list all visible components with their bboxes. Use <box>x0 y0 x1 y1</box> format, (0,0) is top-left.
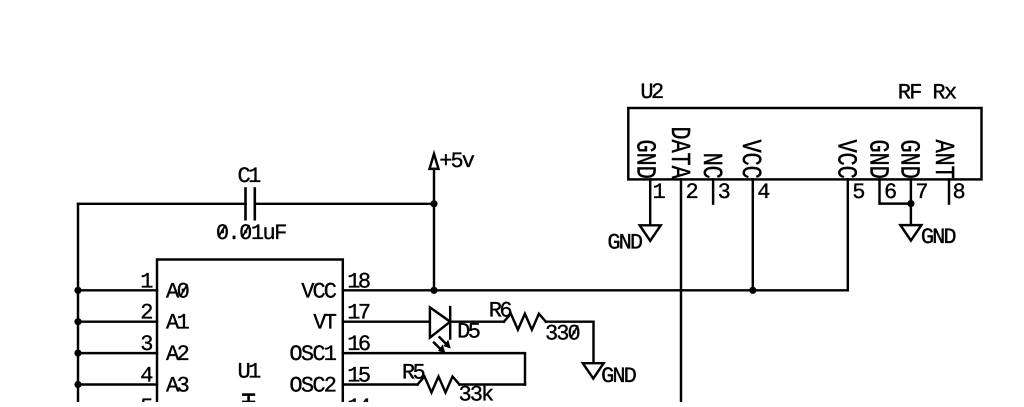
wire R5 to pin16 corner <box>460 383 526 385</box>
svg-text:5: 5 <box>852 180 865 205</box>
svg-text:18: 18 <box>347 269 371 294</box>
node junction +5v/VCC wire <box>430 287 437 294</box>
svg-text:R5: R5 <box>402 360 426 385</box>
svg-text:GND: GND <box>921 225 957 250</box>
wire C1 left segment <box>78 203 246 205</box>
slashed zero marks <box>219 225 226 237</box>
wire U1 pin2 <box>78 320 157 322</box>
svg-text:4: 4 <box>140 364 153 389</box>
node junction U2 pin6-pin7 <box>907 200 914 207</box>
svg-text:2: 2 <box>686 180 699 205</box>
svg-text:3: 3 <box>140 332 153 357</box>
label I below U1 <box>242 395 255 402</box>
node junction rail-pin3 <box>74 350 81 357</box>
wire +5v vertical <box>433 169 435 290</box>
resistor R5 <box>418 377 460 393</box>
svg-text:OSC2: OSC2 <box>289 374 337 399</box>
node junction rail-pin2 <box>74 318 81 325</box>
svg-text:RF Rx: RF Rx <box>898 81 958 106</box>
svg-text:0.01uF: 0.01uF <box>216 221 287 246</box>
svg-text:A2: A2 <box>166 342 190 367</box>
wire U2 pin6 <box>880 179 911 203</box>
IC U1 box <box>157 260 343 403</box>
svg-text:15: 15 <box>347 364 371 389</box>
svg-text:DATA: DATA <box>663 126 694 179</box>
svg-text:OSC1: OSC1 <box>289 342 337 367</box>
svg-text:+5v: +5v <box>439 149 475 174</box>
wire U1 pin17 VT <box>343 320 430 322</box>
svg-text:1: 1 <box>653 180 666 205</box>
svg-text:D5: D5 <box>457 320 481 345</box>
svg-text:330: 330 <box>545 322 581 347</box>
svg-text:3: 3 <box>718 180 731 205</box>
svg-text:NC: NC <box>695 153 726 179</box>
wire U1 pin16 OSC1 <box>343 353 525 384</box>
svg-text:4: 4 <box>757 180 770 205</box>
svg-text:1: 1 <box>140 269 153 294</box>
wire U2 pin3 NC stub <box>712 179 714 203</box>
svg-text:2: 2 <box>140 301 153 326</box>
node junction U2 pin4/VCC wire <box>749 287 756 294</box>
wire U2 pin7 <box>910 179 912 225</box>
svg-text:A3: A3 <box>166 374 190 399</box>
ground GND (R6) <box>583 363 604 378</box>
diode D5 LED <box>430 307 450 337</box>
svg-text:VCC: VCC <box>830 140 861 179</box>
svg-text:33k: 33k <box>459 383 495 403</box>
svg-text:C1: C1 <box>238 164 262 189</box>
svg-text:VCC: VCC <box>301 279 337 304</box>
svg-text:ANT: ANT <box>927 140 958 179</box>
wire U1 pin4 <box>78 383 157 385</box>
svg-text:U2: U2 <box>640 80 664 105</box>
svg-text:5: 5 <box>140 395 153 402</box>
wire U2 pin4 VCC <box>752 179 754 290</box>
svg-text:GND: GND <box>893 140 924 179</box>
svg-text:GND: GND <box>862 140 893 179</box>
svg-text:6: 6 <box>884 180 897 205</box>
svg-text:8: 8 <box>953 180 966 205</box>
ground GND (U2 pin1) <box>640 225 661 241</box>
ground GND (U2 pin7) <box>900 225 921 241</box>
wire U1 pin3 <box>78 352 157 354</box>
capacitor C1 <box>244 189 247 220</box>
svg-text:7: 7 <box>915 180 928 205</box>
node junction +5v/C1 wire <box>430 200 437 207</box>
svg-text:VT: VT <box>313 311 337 336</box>
wire U2 pin2 DATA <box>680 179 682 402</box>
wire C1 right segment to +5v line <box>255 203 434 205</box>
svg-text:GND: GND <box>607 231 643 256</box>
svg-text:VCC: VCC <box>734 140 765 179</box>
node junction rail-pin1 <box>74 287 81 294</box>
wire left rail <box>77 204 79 402</box>
svg-text:R6: R6 <box>489 299 513 324</box>
wire D5 to R6 <box>450 320 504 322</box>
svg-text:A1: A1 <box>166 311 190 336</box>
diode D5 arrowheads <box>443 340 450 349</box>
svg-text:GND: GND <box>601 364 637 389</box>
wire U2 pin1 stub <box>649 179 651 225</box>
svg-text:U1: U1 <box>238 360 262 385</box>
svg-text:17: 17 <box>347 301 371 326</box>
svg-text:GND: GND <box>629 140 660 179</box>
wire U2 pin5 VCC <box>847 179 849 290</box>
power +5v symbol <box>430 154 439 169</box>
svg-text:14: 14 <box>347 395 371 402</box>
svg-text:16: 16 <box>347 332 371 357</box>
IC U2 box <box>628 108 981 179</box>
wire U1 pin1 <box>78 289 157 291</box>
node junction rail-pin4 <box>74 381 81 388</box>
resistor R6 <box>504 314 546 330</box>
wire R6 to GND corner <box>546 322 594 363</box>
wire U1 pin18 VCC <box>343 289 848 291</box>
wire U2 pin8 ANT stub <box>948 179 950 203</box>
wire U1 pin15 OSC2 <box>343 383 418 385</box>
svg-text:A0: A0 <box>166 279 190 304</box>
